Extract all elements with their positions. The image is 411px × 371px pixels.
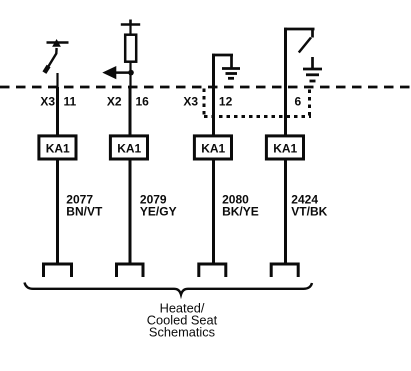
stem col2 xyxy=(129,25,131,35)
caption: Heated/ Cooled Seat Schematics xyxy=(147,300,218,339)
svg-text:X3: X3 xyxy=(40,95,55,109)
relay KA1 box (col4) xyxy=(266,136,303,159)
wire col2 mid xyxy=(129,87,132,136)
ground G1 xyxy=(222,69,240,79)
top horizontal col4 xyxy=(284,28,315,31)
svg-text:X3: X3 xyxy=(183,95,198,109)
svg-text:VT/BK: VT/BK xyxy=(291,205,327,219)
connector C4 xyxy=(271,264,298,277)
dotted harness box bottom edge xyxy=(204,115,311,118)
switch S1 fixed contact T-bar xyxy=(47,41,69,44)
wire col1 lower xyxy=(56,159,59,264)
wire col4 riser xyxy=(284,28,287,136)
wire col3 lower xyxy=(212,159,215,264)
svg-text:BK/YE: BK/YE xyxy=(222,205,259,219)
svg-text:6: 6 xyxy=(295,95,302,109)
relay KA1 box (col2) xyxy=(110,136,147,159)
switch stub col4 xyxy=(311,29,314,38)
dotted harness box left edge xyxy=(203,89,206,117)
svg-text:YE/GY: YE/GY xyxy=(140,205,177,219)
relay KA1 box (col1) xyxy=(39,136,76,159)
resistor R1 xyxy=(125,35,136,62)
svg-text:KA1: KA1 xyxy=(46,141,70,155)
arrow tap (points left) xyxy=(104,67,132,79)
wire col1 mid xyxy=(56,87,59,136)
svg-text:16: 16 xyxy=(136,95,150,109)
dotted harness box right edge xyxy=(308,90,311,117)
svg-text:X2: X2 xyxy=(107,95,122,109)
top horizontal col3 xyxy=(212,54,233,57)
svg-text:KA1: KA1 xyxy=(117,141,141,155)
junction dot col2 xyxy=(128,70,134,76)
ground stub col3 xyxy=(230,55,233,69)
switch S1 blade with arrowheads xyxy=(44,40,60,73)
svg-text:KA1: KA1 xyxy=(273,141,297,155)
wire col3 riser xyxy=(212,54,215,136)
brace xyxy=(25,283,313,295)
relay KA1 box (col3) xyxy=(194,136,231,159)
wire col1 upper xyxy=(56,73,58,87)
connector C1 xyxy=(44,264,72,277)
svg-text:KA1: KA1 xyxy=(201,141,225,155)
wire col4 lower xyxy=(284,159,287,264)
switch blade col4 (open) xyxy=(299,38,311,53)
terminal tick col2 xyxy=(129,20,132,25)
wire col2 lower xyxy=(129,159,132,264)
connector C3 xyxy=(199,264,226,277)
svg-text:BN/VT: BN/VT xyxy=(66,205,103,219)
stem below resistor xyxy=(129,62,131,88)
svg-text:12: 12 xyxy=(219,95,233,109)
dashed bus line xyxy=(0,86,411,89)
connector C2 xyxy=(117,264,144,277)
svg-text:11: 11 xyxy=(64,95,77,109)
terminal T-bar col2 xyxy=(121,23,140,26)
ground G2 xyxy=(303,69,322,81)
ground stem col4 xyxy=(311,57,314,69)
svg-text:Schematics: Schematics xyxy=(149,324,215,339)
